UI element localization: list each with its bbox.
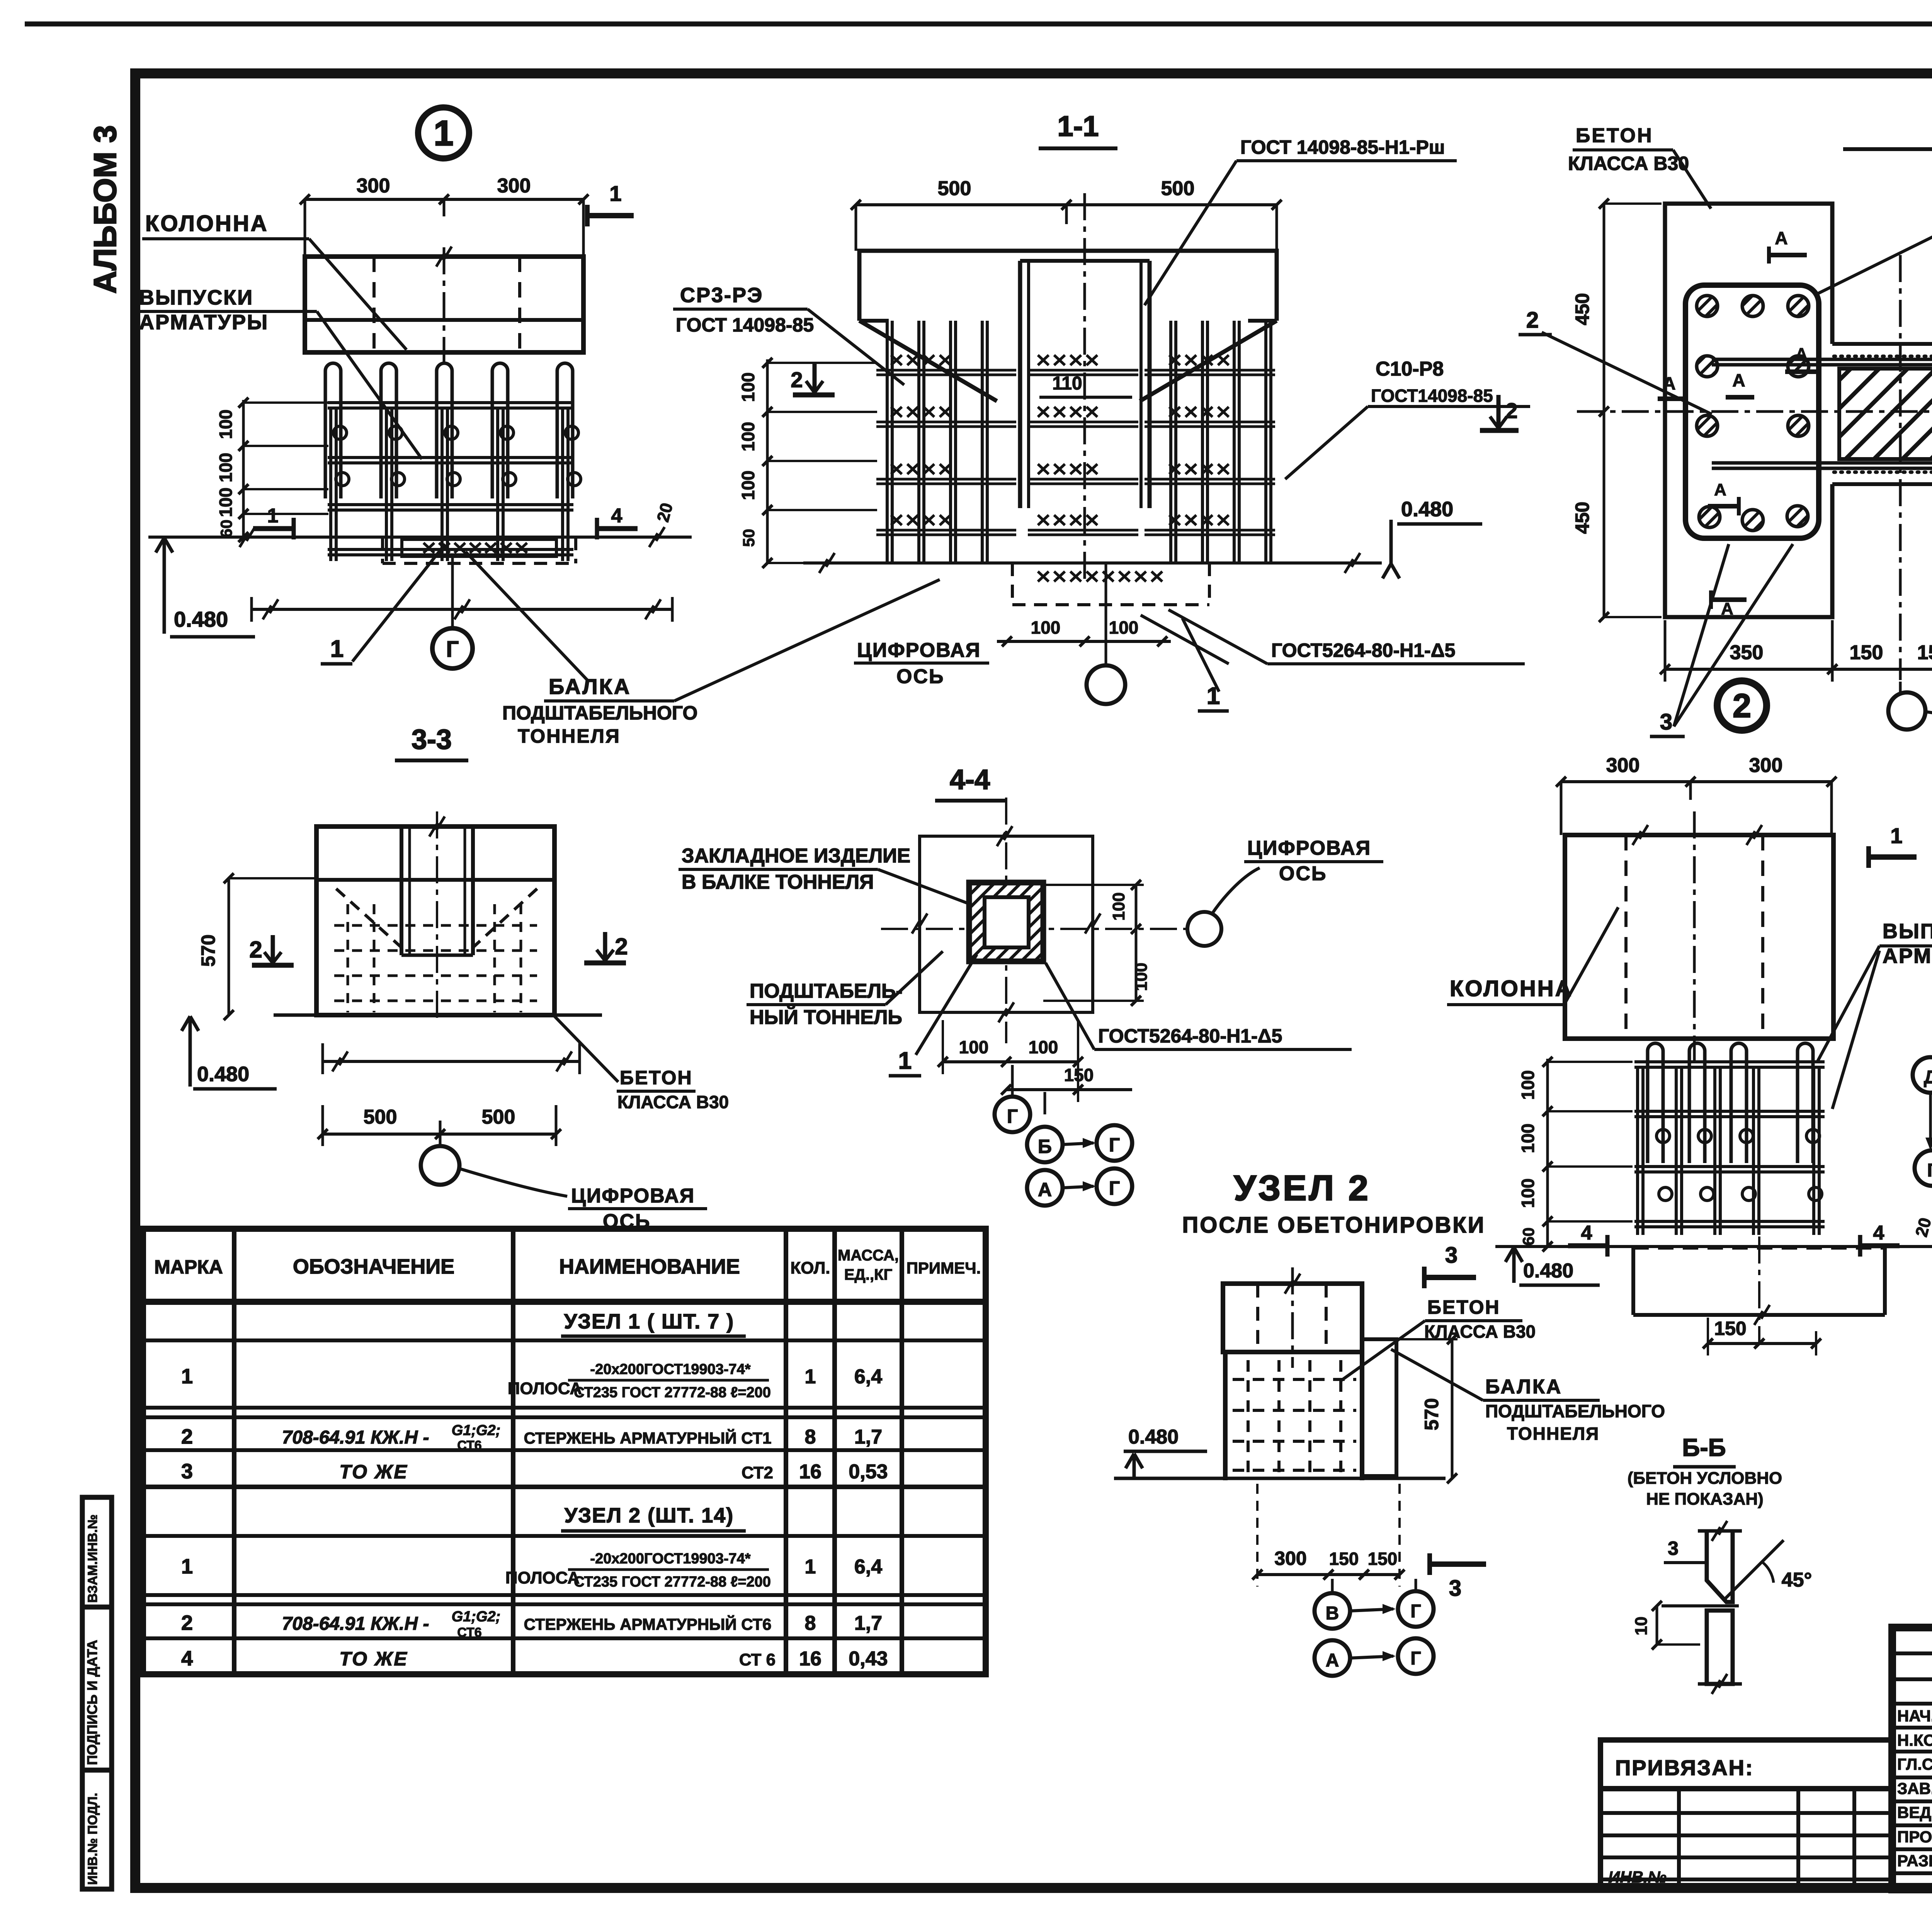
svg-text:В БАЛКЕ ТОННЕЛЯ: В БАЛКЕ ТОННЕЛЯ [682,871,874,893]
svg-text:100: 100 [216,488,236,517]
svg-text:1-1: 1-1 [1058,110,1099,142]
svg-text:10: 10 [1632,1617,1651,1636]
svg-text:100: 100 [1109,617,1139,638]
svg-text:1: 1 [898,1048,912,1074]
svg-text:А: А [1326,1650,1339,1671]
svg-text:ОСЬ: ОСЬ [896,665,944,688]
svg-text:100: 100 [738,372,758,402]
svg-text:3-3: 3-3 [412,724,452,755]
detail B-B 45 deg [1724,1540,1784,1600]
uzel2 base beam [1633,1247,1885,1250]
svg-text:300: 300 [497,175,531,197]
svg-text:1: 1 [181,1555,193,1578]
svg-text:60: 60 [1519,1228,1537,1246]
detail B-B lower plate [1707,1611,1733,1684]
axis circle (1-1) [1087,665,1125,704]
section 2-2 u1 left dim 450 450 [1603,204,1605,617]
svg-text:СР3-РЭ: СР3-РЭ [680,284,763,307]
svg-text:ЗАВ.ГР.: ЗАВ.ГР. [1897,1779,1932,1798]
svg-text:150: 150 [1714,1318,1746,1339]
svg-text:СТ6: СТ6 [457,1438,481,1453]
svg-text:ТОННЕЛЯ: ТОННЕЛЯ [1507,1423,1599,1444]
svg-text:КОЛ.: КОЛ. [790,1259,830,1277]
section 3-3 dashed rebar grid [334,924,537,927]
svg-text:50: 50 [740,529,758,547]
section 1-1 left rebar group [886,321,889,563]
svg-text:2: 2 [791,367,803,392]
scheme circles D V G G [1913,1057,1932,1093]
svg-text:100: 100 [1518,1070,1538,1100]
svg-text:16: 16 [799,1648,821,1670]
svg-text:150: 150 [1917,641,1932,664]
uzel2 view top dims 300 300 [1561,780,1832,783]
section 3-3 column strip [400,827,403,955]
svg-text:БАЛКА: БАЛКА [549,674,631,699]
svg-text:1: 1 [330,636,344,662]
label Tsifrovaya os (2-2 u1) [1926,712,1932,735]
svg-text:Н.КОНТР.: Н.КОНТР. [1897,1731,1932,1749]
section 4-4 outer square [920,836,1093,1012]
label Beton klassa B30 (3-3) [554,1016,618,1082]
section 1-1 horizontal bars with weld hatch [876,369,1016,372]
svg-text:ГОСТ14098-85: ГОСТ14098-85 [1371,386,1493,406]
svg-text:КОЛОННА: КОЛОННА [145,211,269,236]
parts table header row [143,1299,986,1305]
section 2-2 u1 bottom dims 350 150 150 350 [1665,668,1932,671]
svg-text:ЗАКЛАДНОЕ ИЗДЕЛИЕ: ЗАКЛАДНОЕ ИЗДЕЛИЕ [682,845,910,867]
svg-text:8: 8 [805,1612,816,1634]
svg-text:А: А [1038,1179,1052,1201]
svg-text:ГОСТ 14098-85: ГОСТ 14098-85 [676,314,814,336]
section 3-3 ground line [274,1014,602,1017]
sheet top edge line [25,22,1932,27]
svg-text:СТ235 ГОСТ 27772-88 ℓ=200: СТ235 ГОСТ 27772-88 ℓ=200 [574,1574,771,1590]
svg-text:2: 2 [1526,308,1539,333]
svg-text:8: 8 [805,1426,816,1448]
svg-text:НАЧ.ОТД.: НАЧ.ОТД. [1897,1707,1932,1725]
svg-text:КОЛОННА: КОЛОННА [1450,976,1573,1001]
svg-text:500: 500 [364,1106,397,1128]
svg-text:ТО ЖЕ: ТО ЖЕ [339,1461,408,1483]
svg-text:2: 2 [181,1611,193,1634]
uzel 2 dashed rebar grid [1247,1360,1250,1476]
svg-text:НЕ ПОКАЗАН): НЕ ПОКАЗАН) [1646,1490,1764,1509]
svg-text:СТ 6: СТ 6 [739,1650,776,1669]
section 1-1 elevation 0.480 right [1383,564,1400,578]
svg-text:ОБОЗНАЧЕНИЕ: ОБОЗНАЧЕНИЕ [293,1255,454,1278]
section 1-1 top dimension 500+500 [856,203,1277,206]
svg-text:2: 2 [1505,398,1517,423]
section 3-3 bottom dim 500 500 [323,1133,556,1136]
section 3-3 axis circle [421,1146,459,1185]
svg-text:ТОННЕЛЯ: ТОННЕЛЯ [518,725,621,747]
svg-text:Б-Б: Б-Б [1682,1434,1726,1461]
svg-text:0.480: 0.480 [1401,498,1453,521]
svg-text:1: 1 [1890,823,1902,848]
svg-text:0,53: 0,53 [849,1461,888,1483]
svg-text:2: 2 [181,1425,193,1448]
svg-text:СТ235 ГОСТ 27772-88 ℓ=200: СТ235 ГОСТ 27772-88 ℓ=200 [574,1384,771,1401]
section 3-3 elevation 0.480 [182,1016,199,1031]
svg-text:СТ2: СТ2 [742,1463,773,1482]
svg-text:4: 4 [1581,1222,1592,1244]
svg-text:УЗЕЛ 2 (ШТ. 14): УЗЕЛ 2 (ШТ. 14) [565,1504,734,1527]
svg-text:ПОСЛЕ ОБЕТОНИРОВКИ: ПОСЛЕ ОБЕТОНИРОВКИ [1182,1213,1486,1238]
view 1 rebar cage horizontal bars [328,401,573,404]
svg-text:708-64.91 КЖ.Н -: 708-64.91 КЖ.Н - [282,1614,429,1634]
svg-text:Г: Г [1927,1160,1932,1181]
section 1-1 ground line [803,561,1382,565]
svg-text:4-4: 4-4 [950,764,990,795]
svg-text:300: 300 [1749,754,1783,777]
view 1 left dimension chain 100x3 60 [242,400,245,537]
svg-text:100: 100 [1518,1179,1538,1208]
svg-text:2: 2 [249,937,262,963]
svg-text:-20х200ГОСТ19903-74*: -20х200ГОСТ19903-74* [590,1361,750,1378]
svg-text:БЕТОН: БЕТОН [620,1067,693,1088]
view 1 rebar hook ends [333,426,347,439]
svg-text:2: 2 [1733,687,1751,724]
svg-text:0.480: 0.480 [1523,1260,1573,1282]
svg-text:УЗЕЛ 1 ( ШТ. 7 ): УЗЕЛ 1 ( ШТ. 7 ) [564,1310,735,1333]
svg-text:НЫЙ ТОННЕЛЬ: НЫЙ ТОННЕЛЬ [750,1006,902,1029]
svg-text:ГОСТ 14098-85-Н1-Рш: ГОСТ 14098-85-Н1-Рш [1240,136,1445,158]
svg-text:0,43: 0,43 [849,1648,888,1670]
svg-text:300: 300 [1606,754,1640,777]
svg-text:110: 110 [1052,373,1082,394]
svg-text:0.480: 0.480 [174,607,228,631]
svg-text:708-64.91 КЖ.Н -: 708-64.91 КЖ.Н - [282,1427,429,1448]
svg-text:1: 1 [609,181,621,206]
svg-text:СТЕРЖЕНЬ АРМАТУРНЫЙ СТ1: СТЕРЖЕНЬ АРМАТУРНЫЙ СТ1 [524,1429,772,1447]
section 1-1 column head outline [859,251,1277,321]
parts table outer [143,1229,986,1674]
svg-text:ЦИФРОВАЯ: ЦИФРОВАЯ [571,1185,695,1207]
svg-text:ПОДШТАБЕЛЬНОГО: ПОДШТАБЕЛЬНОГО [502,702,697,724]
svg-text:500: 500 [482,1106,515,1128]
svg-text:Г: Г [446,637,459,662]
axis circle G [432,628,473,668]
uzel2 rebar hairpins [1648,1043,1663,1163]
svg-text:А: А [1796,345,1807,363]
parts table row lines [143,1338,986,1342]
uzel2 left dim chain [1546,1059,1549,1247]
svg-text:450: 450 [1571,293,1593,325]
svg-text:3: 3 [1668,1537,1679,1559]
svg-text:ГОСТ5264-80-Н1-Δ5: ГОСТ5264-80-Н1-Δ5 [1098,1025,1282,1047]
uzel 2 column [1223,1284,1362,1352]
svg-text:БАЛКА: БАЛКА [1485,1376,1562,1398]
axis circle (4-4) [1187,912,1221,946]
svg-text:-20х200ГОСТ19903-74*: -20х200ГОСТ19903-74* [590,1551,750,1567]
uzel 2 dim 570 right [1451,1339,1454,1478]
svg-text:ПРИМЕЧ.: ПРИМЕЧ. [906,1259,981,1277]
svg-text:ПРОВЕР.: ПРОВЕР. [1897,1828,1932,1846]
svg-text:350: 350 [1730,641,1764,664]
section 4-4 centerlines [881,928,1189,930]
svg-text:1: 1 [267,505,279,527]
svg-text:А: А [1714,480,1726,499]
svg-text:100: 100 [1029,1037,1058,1057]
section 1-1 dim 100 100 below [997,640,1171,643]
svg-text:Г: Г [1109,1134,1120,1156]
svg-text:В: В [1326,1603,1339,1624]
uzel2 dim 150 [1708,1342,1816,1345]
svg-text:ТО ЖЕ: ТО ЖЕ [339,1648,408,1670]
uzel 2 section mark 3 bottom [1430,1561,1486,1567]
view 1 elevation mark 0.480 [156,538,173,553]
svg-text:А: А [1732,370,1745,390]
svg-text:ОСЬ: ОСЬ [1279,862,1327,885]
svg-text:МАССА,: МАССА, [838,1247,899,1264]
svg-text:ВЫПУСКИ: ВЫПУСКИ [139,286,253,309]
svg-text:ИНВ.№ ПОДЛ.: ИНВ.№ ПОДЛ. [85,1793,100,1885]
svg-text:150: 150 [1329,1549,1359,1569]
privyazan box [1600,1740,1892,1789]
title block outer [1892,1628,1932,1889]
section 3-3 lower line [323,1060,580,1063]
svg-text:500: 500 [1161,177,1195,200]
section 4-4 embedded plate [969,883,1043,961]
svg-text:НАИМЕНОВАНИЕ: НАИМЕНОВАНИЕ [559,1255,740,1278]
uzel 2 lower block [1223,1352,1228,1480]
svg-text:Г: Г [1109,1177,1120,1199]
section 2-2 u1 left concrete column [1665,204,1832,617]
view 1 embedded beam below ground [383,562,576,565]
uzel2 ground line [1495,1245,1932,1248]
svg-text:16: 16 [799,1461,821,1483]
section 2-2 u1 centerlines [1577,410,1932,413]
section 2-2 u1 tie bars [1712,358,1932,361]
svg-text:ЦИФРОВАЯ: ЦИФРОВАЯ [857,639,981,662]
svg-text:100: 100 [1031,617,1061,638]
view 1 marker circle [418,107,469,158]
svg-text:ПОДПИСЬ И ДАТА: ПОДПИСЬ И ДАТА [84,1640,100,1765]
section 2-2 u1 joint block [1832,342,1932,346]
svg-text:Б: Б [1038,1136,1052,1157]
uzel2 view column outline [1565,835,1833,1039]
svg-text:ГЛ.СПЕЦ.: ГЛ.СПЕЦ. [1897,1755,1932,1773]
section 1-1 central channel [1018,261,1022,508]
uzel2 hook ends [1656,1129,1670,1143]
svg-text:БЕТОН: БЕТОН [1576,124,1653,147]
svg-text:ПОДШТАБЕЛЬНОГО: ПОДШТАБЕЛЬНОГО [1485,1401,1665,1421]
svg-text:300: 300 [357,175,390,197]
parts table column lines [232,1229,236,1674]
scheme circles V G A G (uzel 2) [1331,1579,1334,1594]
svg-text:G1;G2;: G1;G2; [452,1422,501,1439]
left stamp cell VZAM INV [82,1497,112,1607]
marker circle 2 [1717,681,1767,730]
svg-text:СТ6: СТ6 [457,1625,481,1640]
svg-text:ВЗАМ.ИНВ.№: ВЗАМ.ИНВ.№ [85,1514,100,1603]
section 1-1 right rebar group [1169,321,1172,563]
uzel 2 beam extension right [1362,1339,1396,1476]
svg-text:100: 100 [216,453,236,483]
privyazan revision grid [1600,1789,1892,1886]
svg-text:4: 4 [181,1647,193,1670]
svg-text:СТЕРЖЕНЬ АРМАТУРНЫЙ СТ6: СТЕРЖЕНЬ АРМАТУРНЫЙ СТ6 [524,1615,772,1633]
svg-text:А: А [1721,599,1733,618]
view 1 top dimension line 300+300 [305,198,583,201]
uzel2 cage horizontal bars [1634,1060,1825,1063]
svg-text:1: 1 [805,1366,816,1388]
section 2-2 u1 left rebar cage [1685,285,1819,538]
svg-text:ВЫПУСКИ: ВЫПУСКИ [1883,920,1932,943]
axis circle (2-2 u1) [1888,692,1925,730]
view 1 lower dimension line [252,608,672,611]
svg-text:КЛАССА В30: КЛАССА В30 [1424,1321,1536,1342]
svg-text:100: 100 [1132,963,1151,991]
label Tsifrovaya os (3-3) [459,1168,567,1196]
svg-text:ЦИФРОВАЯ: ЦИФРОВАЯ [1247,837,1371,859]
svg-text:450: 450 [1571,502,1593,534]
svg-text:4: 4 [1873,1222,1884,1244]
svg-text:6,4: 6,4 [854,1366,882,1388]
svg-text:1,7: 1,7 [854,1426,882,1448]
view 1 rebar cage vertical bars [329,409,332,561]
detail B-B gap line [1662,1604,1739,1607]
svg-text:100: 100 [738,422,758,452]
svg-text:АЛЬБОМ 3: АЛЬБОМ 3 [88,125,123,294]
svg-text:ПРИВЯЗАН:: ПРИВЯЗАН: [1615,1755,1754,1780]
svg-text:УЗЕЛ 2: УЗЕЛ 2 [1234,1168,1371,1208]
svg-text:3: 3 [1449,1576,1461,1601]
section 3-3 dim 570 [228,878,230,1015]
section 3-3 concrete block [316,827,554,1015]
svg-text:1: 1 [434,114,453,153]
section 1-1 left dimension chain [766,359,769,563]
svg-text:Г: Г [1410,1601,1421,1622]
svg-text:0.480: 0.480 [1128,1426,1179,1448]
svg-text:ЕД.,КГ: ЕД.,КГ [844,1266,893,1283]
svg-text:ПОДШТАБЕЛЬ-: ПОДШТАБЕЛЬ- [750,980,903,1002]
svg-text:Г: Г [1007,1105,1018,1127]
svg-text:150: 150 [1850,641,1883,664]
uzel2 elevation 0.480 [1505,1247,1522,1262]
svg-text:1,7: 1,7 [854,1612,882,1634]
svg-text:570: 570 [1421,1398,1442,1430]
view 1 column dashed rebar lines [372,257,376,352]
svg-text:3: 3 [1660,709,1672,735]
svg-text:6,4: 6,4 [854,1556,882,1578]
svg-text:АРМАТУРЫ: АРМАТУРЫ [139,311,269,334]
section 2-2 u1 bearing strips dotted [1834,355,1932,358]
svg-text:45°: 45° [1782,1569,1812,1591]
svg-text:100: 100 [1109,892,1128,920]
svg-text:60: 60 [217,520,235,538]
svg-text:КЛАССА В30: КЛАССА В30 [1568,153,1689,174]
svg-text:3: 3 [181,1460,193,1483]
svg-text:Д: Д [1924,1067,1932,1088]
svg-text:АРМАТУРЫ: АРМАТУРЫ [1883,944,1932,968]
section 4-4 right dims 100 100 [1135,885,1138,1001]
svg-text:РАЗРАБ.: РАЗРАБ. [1897,1852,1932,1870]
svg-text:ПОЛОСА: ПОЛОСА [508,1379,582,1398]
uzel 2 ground line [1114,1477,1446,1480]
svg-text:МАРКА: МАРКА [154,1256,223,1278]
svg-text:ГОСТ5264-80-Н1-Δ5: ГОСТ5264-80-Н1-Δ5 [1271,639,1455,661]
svg-text:КЛАССА В30: КЛАССА В30 [617,1092,729,1112]
svg-text:0.480: 0.480 [197,1063,249,1086]
svg-text:ИНВ.№: ИНВ.№ [1608,1868,1667,1886]
svg-text:100: 100 [216,410,236,439]
svg-text:300: 300 [1274,1548,1306,1569]
svg-text:3: 3 [1445,1243,1458,1268]
svg-text:(БЕТОН УСЛОВНО: (БЕТОН УСЛОВНО [1628,1469,1782,1488]
svg-text:150: 150 [1368,1549,1398,1569]
svg-text:500: 500 [938,177,971,200]
detail B-B upper plate [1707,1531,1733,1602]
svg-text:1: 1 [181,1365,193,1388]
svg-text:1: 1 [805,1556,816,1578]
section 3-3 dashed haunch lines [336,889,401,947]
svg-text:100: 100 [959,1037,989,1057]
svg-text:100: 100 [738,471,758,500]
left stamp cell PODPIS I DATA [82,1607,112,1770]
svg-text:4: 4 [611,505,622,527]
uzel 2 bottom dims 300 150 150 [1257,1573,1401,1576]
svg-text:БЕТОН: БЕТОН [1427,1296,1500,1318]
view 1 column outline [305,257,583,352]
view 1 rebar hairpin outlets [325,363,341,498]
section 1-1 beam below ground dashed [1012,603,1209,606]
svg-text:Г: Г [1410,1648,1421,1669]
svg-text:570: 570 [197,934,219,966]
scheme circles G B G A G (4-4) [1011,1065,1014,1097]
svg-text:ВЕД.ИНЖ: ВЕД.ИНЖ [1897,1803,1932,1821]
left stamp cell INV N PODL [82,1770,112,1889]
svg-text:А: А [1775,228,1787,248]
uzel2 cage vertical bars [1636,1067,1639,1235]
svg-text:G1;G2;: G1;G2; [452,1609,501,1625]
svg-text:2: 2 [615,934,628,959]
section 4-4 bottom dims 100 100 150 [943,1060,1078,1063]
view 1 ground line [148,536,692,539]
title block signature rows [1892,1651,1932,1655]
svg-text:100: 100 [1518,1124,1538,1153]
svg-text:ПОЛОСА: ПОЛОСА [505,1568,580,1587]
svg-text:С10-Р8: С10-Р8 [1376,358,1444,380]
